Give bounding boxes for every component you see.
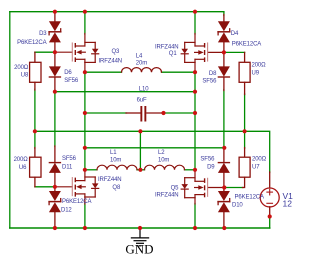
transistor Q6 [181, 170, 224, 204]
node gate right lower [222, 185, 226, 189]
svg-text:P6KE12CA: P6KE12CA [17, 40, 47, 46]
wire cap row right [162, 112, 195, 114]
wire U9 column bottom [244, 94, 246, 131]
svg-text:200Ω: 200Ω [14, 65, 29, 71]
node Q1 source [193, 70, 197, 74]
diode D8 [218, 52, 230, 90]
svg-text:U8: U8 [21, 72, 29, 78]
wire Q8 source to rail [84, 204, 86, 229]
diode D6 [49, 52, 61, 91]
svg-text:SF56: SF56 [200, 156, 215, 162]
wire x85 column [84, 72, 86, 170]
transistor Q1 [181, 34, 224, 73]
svg-text:L10: L10 [139, 86, 149, 92]
wire U7 bottom to gate node [226, 187, 243, 189]
svg-text:Q3: Q3 [112, 49, 121, 55]
node rail D10 [222, 226, 226, 230]
wire cap row left [85, 112, 127, 114]
svg-text:U9: U9 [252, 71, 260, 77]
wire left border [9, 12, 11, 228]
transistor Q8 [55, 170, 99, 204]
svg-text:P6KE12CA: P6KE12CA [232, 41, 262, 47]
svg-text:Q8: Q8 [112, 185, 121, 191]
svg-text:L1: L1 [110, 150, 117, 156]
svg-text:D12: D12 [61, 207, 72, 213]
inductor L4 [122, 68, 162, 73]
node cap row left [83, 111, 87, 115]
node L1 left [83, 168, 87, 172]
svg-text:200Ω: 200Ω [252, 157, 267, 163]
TVS diode D10 [218, 188, 230, 229]
wire U8 column [34, 89, 36, 131]
node gate left lower [53, 185, 57, 189]
node rail Q6 [193, 226, 197, 230]
svg-text:SF56: SF56 [202, 79, 217, 85]
svg-text:IRFZ44N: IRFZ44N [155, 193, 179, 199]
capacitor C1 6uF [126, 106, 162, 122]
wire gate rail upper-right [224, 51, 245, 53]
diode D9 [218, 148, 230, 188]
svg-text:L2: L2 [158, 150, 165, 156]
wire L4 row right [162, 71, 196, 73]
wire Q1 drain from top rail [194, 12, 196, 34]
svg-text:200Ω: 200Ω [14, 157, 29, 163]
wire right diode column D8-D9 [223, 90, 225, 149]
svg-text:P6KE12CA: P6KE12CA [235, 195, 265, 201]
svg-text:U7: U7 [252, 165, 260, 171]
svg-text:6uF: 6uF [137, 98, 147, 104]
svg-text:U6: U6 [19, 165, 27, 171]
svg-text:10m: 10m [158, 158, 169, 164]
wire V1 bottom to rail [269, 217, 271, 229]
svg-text:10m: 10m [110, 158, 121, 164]
wire L1-L2 mid [137, 169, 145, 171]
diode D11 [49, 146, 61, 187]
svg-text:IRFZ44N: IRFZ44N [99, 59, 123, 65]
resistor U7 [239, 148, 250, 188]
wire Q3 drain from top rail [84, 12, 86, 34]
node Q3 source [83, 70, 87, 74]
wire U6 column top [34, 131, 36, 148]
node U8 bottom [33, 129, 37, 133]
wire Q6 source to rail [194, 204, 196, 229]
voltage source V1 [260, 172, 279, 217]
node row131 mid [138, 129, 142, 133]
wire gate rail upper-left [35, 51, 55, 53]
wire top rail [10, 11, 224, 13]
svg-text:GND: GND [125, 241, 153, 256]
svg-text:Q1: Q1 [169, 51, 178, 57]
wire U7 column top [244, 131, 246, 148]
node row148 right [222, 146, 226, 150]
wire left diode column D6-D11 [54, 92, 56, 147]
node top Q3 drain [83, 10, 87, 14]
node row148 left [83, 146, 87, 150]
transistor Q3 [55, 34, 99, 73]
svg-text:D6: D6 [64, 70, 72, 76]
node L2 right [193, 168, 197, 172]
inductor L2 [145, 165, 185, 170]
svg-text:IRFZ44N: IRFZ44N [98, 177, 122, 183]
node D3 bottom gate [53, 50, 57, 54]
wire x195 column [194, 72, 196, 170]
wire L2 right [185, 169, 196, 171]
wire D4 top corner [223, 12, 225, 16]
wire mid column x140 [139, 131, 141, 170]
TVS diode D12 [49, 187, 61, 228]
node D6 bottom [53, 90, 57, 94]
node cap row right [193, 111, 197, 115]
svg-text:D3: D3 [39, 31, 47, 37]
node L10 right [193, 90, 197, 94]
TVS diode D4 [218, 15, 230, 53]
svg-text:D11: D11 [62, 165, 73, 171]
node rail Q8 [83, 226, 87, 230]
svg-text:L4: L4 [136, 54, 143, 60]
svg-text:SF56: SF56 [62, 156, 77, 162]
node rail D12 [53, 226, 57, 230]
svg-text:Q5: Q5 [171, 185, 180, 191]
svg-text:20m: 20m [136, 61, 147, 67]
svg-text:SF56: SF56 [64, 78, 79, 84]
resistor U8 [30, 52, 41, 90]
wire row y131 [35, 131, 270, 172]
svg-text:D8: D8 [209, 71, 217, 77]
node V1 bottom [268, 214, 272, 218]
wire bottom rail [10, 227, 270, 229]
svg-text:IRFZ44N: IRFZ44N [155, 44, 179, 50]
wire row y148 [85, 147, 224, 149]
node top D3 [53, 10, 57, 14]
resistor U6 [30, 148, 41, 187]
node cap pin [161, 111, 165, 115]
svg-text:P6KE12CA: P6KE12CA [62, 199, 92, 205]
node L1 L2 mid [138, 168, 142, 172]
inductor L1 [97, 165, 137, 170]
wire row y92 L10 net [55, 91, 195, 93]
wire L1 row left [85, 169, 97, 171]
svg-text:200Ω: 200Ω [252, 62, 267, 68]
ground [131, 228, 149, 246]
resistor U9 [239, 52, 250, 94]
node top Q1 drain [193, 10, 197, 14]
TVS diode D3 [49, 12, 61, 53]
svg-text:D4: D4 [231, 31, 239, 37]
node D4 bottom gate [222, 50, 226, 54]
wire U6 bottom to gate node [35, 186, 55, 188]
wire L4 row left [85, 71, 122, 73]
node U9 bottom [243, 129, 247, 133]
svg-text:D9: D9 [207, 165, 215, 171]
svg-text:D10: D10 [232, 202, 243, 208]
node rail GND [138, 226, 142, 230]
svg-text:12: 12 [283, 199, 293, 209]
